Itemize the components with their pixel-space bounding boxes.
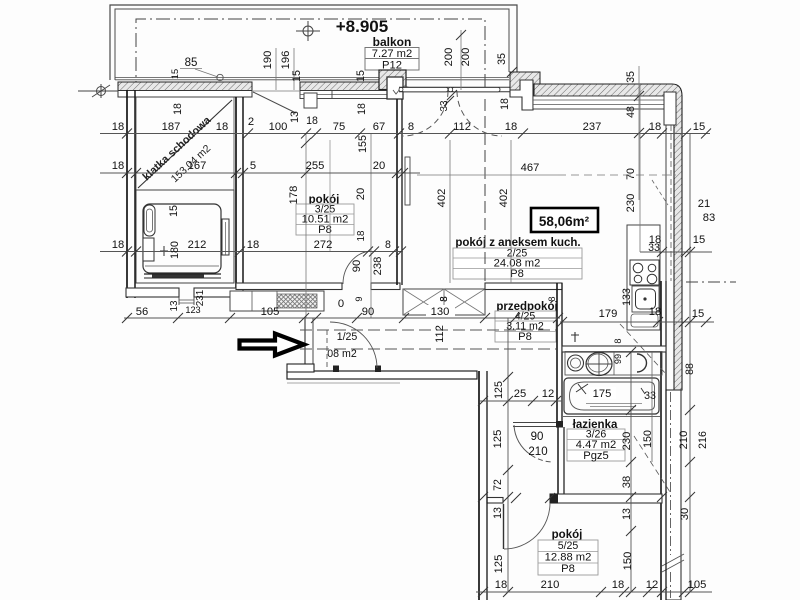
svg-text:88: 88 bbox=[684, 363, 696, 375]
svg-text:15: 15 bbox=[693, 234, 705, 246]
svg-text:13: 13 bbox=[492, 507, 504, 519]
label 230 kitchen col bbox=[639, 84, 641, 252]
top-right window band bbox=[533, 96, 665, 109]
outer wall hatched band (staircase+pokoj top) bbox=[118, 82, 252, 91]
svg-text:18: 18 bbox=[247, 239, 259, 251]
svg-text:33: 33 bbox=[644, 390, 656, 402]
svg-text:90: 90 bbox=[351, 260, 363, 272]
svg-text:P8: P8 bbox=[510, 268, 524, 280]
svg-text:18: 18 bbox=[112, 121, 124, 133]
svg-text:105: 105 bbox=[688, 579, 707, 591]
svg-text:70: 70 bbox=[625, 168, 637, 180]
survey marker left end bbox=[97, 87, 106, 96]
pokoj bottom wall bbox=[236, 283, 342, 290]
svg-text:216: 216 bbox=[697, 431, 709, 449]
svg-text:18: 18 bbox=[612, 579, 624, 591]
svg-text:30: 30 bbox=[679, 508, 691, 520]
svg-text:75: 75 bbox=[333, 121, 345, 133]
svg-text:P8: P8 bbox=[518, 331, 532, 343]
bathroom left wall lower stub bbox=[557, 427, 559, 498]
dim line y251 bbox=[100, 251, 403, 253]
double door dashed swing bbox=[403, 91, 448, 136]
lower room top wall bbox=[487, 498, 503, 504]
svg-text:48: 48 bbox=[625, 106, 637, 118]
svg-text:13: 13 bbox=[169, 300, 180, 311]
big room left wall bbox=[396, 99, 398, 285]
svg-text:8: 8 bbox=[439, 296, 450, 302]
label 175 tub bbox=[589, 387, 616, 399]
svg-text:12.88 m2: 12.88 m2 bbox=[545, 552, 592, 564]
svg-text:210: 210 bbox=[541, 579, 560, 591]
svg-text:8: 8 bbox=[613, 338, 623, 343]
washbasin round bbox=[565, 352, 662, 376]
dim column x508 bbox=[507, 318, 509, 592]
svg-text:18: 18 bbox=[306, 115, 318, 127]
svg-text:5: 5 bbox=[250, 160, 256, 172]
svg-text:150: 150 bbox=[642, 430, 654, 448]
svg-text:83: 83 bbox=[703, 212, 715, 224]
svg-text:155: 155 bbox=[357, 135, 369, 153]
svg-text:402: 402 bbox=[498, 189, 510, 208]
half-oval fixture bbox=[637, 354, 647, 372]
direction arrow bbox=[240, 334, 305, 356]
svg-text:167: 167 bbox=[188, 160, 207, 172]
svg-text:25: 25 bbox=[514, 388, 526, 400]
svg-text:90: 90 bbox=[531, 431, 544, 443]
elevator car bbox=[143, 204, 221, 273]
entry bottom wall bbox=[287, 371, 477, 379]
svg-text:58,06m²: 58,06m² bbox=[539, 214, 590, 229]
svg-text:18: 18 bbox=[112, 239, 124, 251]
balcony outline top-left bbox=[110, 5, 517, 80]
svg-text:402: 402 bbox=[436, 189, 448, 208]
dim line y133 bbox=[100, 133, 710, 135]
staircase right wall bbox=[235, 97, 237, 290]
svg-text:15: 15 bbox=[693, 121, 705, 133]
svg-text:9: 9 bbox=[354, 296, 364, 301]
corridor cabinet row A bbox=[230, 291, 324, 311]
right inner wall lower bbox=[660, 281, 662, 600]
staircase bottom wall bbox=[126, 288, 179, 297]
svg-text:18: 18 bbox=[356, 230, 367, 241]
svg-text:150: 150 bbox=[622, 552, 634, 571]
svg-text:15: 15 bbox=[355, 70, 367, 82]
svg-text:balkon: balkon bbox=[373, 35, 412, 49]
svg-text:112: 112 bbox=[434, 325, 446, 343]
elevator door bbox=[144, 273, 221, 275]
svg-text:18: 18 bbox=[112, 160, 124, 172]
svg-text:8: 8 bbox=[408, 121, 414, 133]
svg-text:90: 90 bbox=[362, 306, 374, 318]
svg-text:125: 125 bbox=[493, 381, 505, 399]
staircase left wall bbox=[126, 90, 136, 298]
svg-text:0: 0 bbox=[338, 298, 344, 310]
right wall plain lower part bbox=[666, 390, 681, 600]
svg-text:178: 178 bbox=[288, 186, 300, 205]
dim line y592 bbox=[476, 591, 712, 593]
white pier below block bbox=[387, 77, 403, 99]
svg-text:18: 18 bbox=[649, 234, 661, 246]
svg-text:15: 15 bbox=[168, 205, 180, 217]
kitchen cabinet row B bbox=[403, 289, 485, 315]
oval basin with cross bbox=[586, 353, 612, 376]
door start square bbox=[403, 87, 408, 92]
kitchen counter bbox=[627, 225, 660, 330]
elevator cross mark bbox=[160, 246, 168, 256]
svg-text:105: 105 bbox=[261, 306, 280, 318]
kitchen sink bbox=[632, 286, 659, 312]
label 130 bbox=[426, 305, 455, 317]
svg-text:180: 180 bbox=[169, 241, 181, 259]
svg-text:179: 179 bbox=[599, 308, 618, 320]
svg-text:13: 13 bbox=[621, 508, 633, 520]
svg-text:237: 237 bbox=[583, 121, 602, 133]
dim vertical 402 a bbox=[449, 140, 451, 283]
dim line y401 bbox=[480, 400, 562, 402]
tub overflow mark bbox=[576, 384, 588, 394]
svg-text:1/25: 1/25 bbox=[337, 331, 358, 343]
hatched pier block left of door bbox=[379, 70, 406, 90]
svg-text:8: 8 bbox=[547, 296, 557, 301]
svg-text:18: 18 bbox=[505, 121, 517, 133]
balcony dash-dot inner boundary bbox=[136, 19, 485, 95]
elevator counterweight bbox=[144, 205, 155, 236]
svg-text:196: 196 bbox=[280, 51, 292, 70]
staircase bottom opening bbox=[178, 297, 180, 305]
svg-text:67: 67 bbox=[373, 121, 385, 133]
svg-text:38: 38 bbox=[621, 476, 633, 488]
svg-text:187: 187 bbox=[162, 121, 181, 133]
balcony door unit big room bbox=[399, 86, 521, 88]
entry door arc bbox=[330, 322, 377, 368]
bathroom door lintel bbox=[513, 422, 556, 424]
svg-text:72: 72 bbox=[492, 479, 504, 491]
svg-text:18: 18 bbox=[649, 121, 661, 133]
dim vertical 402 b bbox=[510, 140, 512, 283]
svg-text:15: 15 bbox=[291, 70, 303, 82]
lower room door jamb bbox=[550, 494, 558, 504]
bathroom door arc bbox=[514, 425, 531, 455]
svg-text:210: 210 bbox=[678, 431, 690, 450]
ticks lower room top wall bbox=[478, 492, 488, 502]
balcony floor edge line bbox=[115, 77, 509, 79]
svg-text:7.27 m2: 7.27 m2 bbox=[372, 48, 412, 60]
svg-text:2: 2 bbox=[248, 116, 254, 128]
svg-text:18: 18 bbox=[172, 103, 184, 115]
svg-text:08 m2: 08 m2 bbox=[327, 348, 357, 360]
svg-text:125: 125 bbox=[492, 430, 504, 449]
counter lower cell bbox=[631, 314, 658, 327]
staircase room border bbox=[136, 97, 234, 190]
dim column x652 bbox=[651, 352, 653, 462]
tub platform line bbox=[562, 416, 660, 418]
svg-text:272: 272 bbox=[314, 239, 333, 251]
svg-text:85: 85 bbox=[185, 57, 198, 69]
wall big room / przedpokoj bbox=[485, 283, 562, 290]
svg-text:133: 133 bbox=[621, 288, 633, 306]
svg-text:12: 12 bbox=[646, 579, 658, 591]
svg-text:P8: P8 bbox=[561, 563, 575, 575]
svg-text:200: 200 bbox=[460, 48, 472, 67]
dim 467 line bbox=[417, 174, 558, 176]
svg-text:230: 230 bbox=[625, 194, 637, 213]
svg-text:18: 18 bbox=[495, 579, 507, 591]
right wall window inner lines bbox=[665, 125, 667, 281]
survey crosshair symbol bbox=[303, 26, 313, 36]
svg-text:125: 125 bbox=[493, 555, 505, 574]
svg-text:15: 15 bbox=[170, 69, 180, 79]
elevator guide right bbox=[222, 219, 229, 255]
corridor dashed lines bbox=[300, 329, 556, 331]
svg-text:231: 231 bbox=[195, 290, 206, 306]
bathtub bbox=[564, 378, 659, 414]
svg-text:100: 100 bbox=[269, 121, 288, 133]
svg-text:8: 8 bbox=[385, 239, 391, 251]
wall slab band below bbox=[118, 91, 252, 98]
svg-text:12: 12 bbox=[542, 388, 554, 400]
svg-text:Pgz5: Pgz5 bbox=[583, 450, 609, 462]
svg-text:21: 21 bbox=[698, 198, 710, 210]
dim line y173 bbox=[100, 172, 420, 174]
svg-text:190: 190 bbox=[262, 51, 274, 70]
dim column x690 bbox=[689, 133, 691, 592]
svg-text:130: 130 bbox=[431, 306, 450, 318]
58,06m2 area box bbox=[531, 208, 598, 232]
svg-text:18: 18 bbox=[356, 103, 368, 115]
labels 200 200 bbox=[460, 30, 462, 90]
balcony door opening leaf bbox=[253, 92, 296, 113]
dim verticals 190 196 bbox=[275, 48, 277, 90]
lower room left wall bbox=[478, 371, 480, 600]
svg-text:212: 212 bbox=[188, 239, 207, 251]
window corner pier bbox=[664, 92, 676, 125]
svg-text:112: 112 bbox=[453, 121, 471, 133]
svg-text:20: 20 bbox=[355, 188, 367, 200]
dim vertical x640 top bbox=[638, 66, 640, 200]
svg-text:175: 175 bbox=[593, 388, 612, 400]
svg-text:99: 99 bbox=[613, 354, 623, 364]
svg-text:33: 33 bbox=[439, 100, 450, 111]
elevator shaft bbox=[136, 190, 234, 283]
svg-text:123: 123 bbox=[185, 305, 200, 315]
svg-text:35: 35 bbox=[625, 71, 637, 83]
corridor left wall stub bbox=[304, 318, 306, 371]
svg-text:230: 230 bbox=[621, 432, 633, 451]
svg-text:210: 210 bbox=[528, 446, 547, 458]
hob 4 burners bbox=[630, 260, 659, 285]
svg-text:255: 255 bbox=[306, 160, 325, 172]
window pokoj 3/25 bbox=[300, 91, 396, 99]
top-right outer wall band bbox=[534, 84, 682, 390]
big room radiator bbox=[405, 157, 410, 205]
svg-text:5/25: 5/25 bbox=[558, 540, 579, 552]
section dashdot right bbox=[686, 281, 736, 283]
svg-text:238: 238 bbox=[372, 257, 384, 276]
dim line y318 bbox=[124, 317, 560, 319]
dashed centreline x485 bbox=[484, 99, 486, 283]
dim verticals pokoj bbox=[305, 133, 307, 318]
svg-text:+8.905: +8.905 bbox=[336, 17, 388, 36]
svg-text:18: 18 bbox=[649, 306, 661, 318]
hatched corner block bbox=[510, 72, 540, 90]
svg-text:13: 13 bbox=[289, 111, 301, 123]
svg-text:20: 20 bbox=[373, 160, 385, 172]
pokoj door arc bbox=[343, 251, 371, 284]
svg-text:35: 35 bbox=[496, 53, 508, 65]
bathroom top wall bbox=[562, 346, 666, 352]
pillar top-right balcony bbox=[510, 80, 533, 110]
dim line y322 bbox=[560, 321, 714, 323]
svg-text:18: 18 bbox=[499, 98, 511, 110]
svg-text:467: 467 bbox=[521, 162, 540, 174]
bathroom dashed diagonals bbox=[620, 324, 666, 374]
dim pair 18 15 y252 bbox=[640, 251, 712, 253]
faucet symbol bbox=[571, 332, 579, 342]
staircase diagonal bbox=[138, 100, 232, 188]
svg-text:56: 56 bbox=[136, 306, 148, 318]
svg-text:200: 200 bbox=[443, 48, 455, 67]
lower room door leaf+arc bbox=[503, 504, 505, 549]
svg-text:18: 18 bbox=[216, 121, 228, 133]
wall przedpokoj right vertical bbox=[556, 283, 558, 427]
dim column x631 bbox=[630, 352, 632, 592]
entry door jambs bbox=[333, 366, 339, 373]
